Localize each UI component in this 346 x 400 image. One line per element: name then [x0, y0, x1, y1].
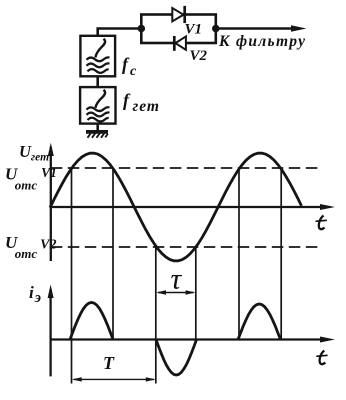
wire from source f_c top to left node	[98, 29, 142, 37]
dashed level U_отс V1	[51, 167, 322, 169]
svg-text:UотсV2: UотсV2	[5, 233, 57, 261]
node B (right junction dot)	[212, 25, 220, 33]
vertical guide line A	[71, 168, 73, 384]
svg-text:T: T	[103, 353, 115, 373]
node A (left junction dot)	[138, 25, 146, 33]
current pulse 1	[70, 303, 113, 340]
svg-text:fгет: fгет	[123, 90, 160, 115]
source generator f_c	[80, 36, 115, 77]
dashed level U_отс V2	[51, 246, 320, 248]
t axis (upper horizontal)	[51, 204, 335, 210]
svg-text:Uгет: Uгет	[19, 142, 49, 164]
wire loop of diode pair (rectangle)	[141, 15, 216, 44]
dimension T between lines A and C	[72, 377, 156, 381]
source generator f_гет	[80, 87, 115, 124]
output wire with arrow to filter	[216, 25, 307, 32]
ground	[86, 124, 108, 138]
sine curve U_гет(t)	[50, 153, 302, 261]
label t (lower)	[316, 351, 327, 365]
svg-text:iэ: iэ	[29, 283, 41, 306]
vertical guide line D	[195, 247, 197, 341]
vertical guide line E	[238, 168, 240, 341]
diode V1 (top, anode left)	[172, 6, 184, 23]
label t (upper)	[316, 216, 327, 230]
dimension τ between lines C and D	[156, 290, 195, 294]
t axis (lower horizontal)	[51, 337, 335, 343]
i axis (vertical)	[48, 285, 54, 377]
U axis (vertical)	[48, 143, 54, 261]
wire between generators	[96, 76, 99, 87]
svg-text:К фильтру: К фильтру	[218, 33, 306, 50]
vertical guide line F	[280, 168, 282, 341]
svg-text:V2: V2	[190, 48, 208, 64]
svg-text:V1: V1	[185, 22, 203, 38]
svg-text:fс: fс	[122, 54, 137, 79]
current pulse 2	[238, 304, 281, 340]
svg-text:UотсV1: UотсV1	[5, 165, 57, 193]
diode V2 (bottom, anode right)	[174, 36, 186, 51]
vertical guide line B	[112, 168, 114, 341]
current pulse negative	[156, 340, 197, 376]
svg-text:τ: τ	[171, 263, 183, 296]
vertical guide line C	[155, 247, 157, 384]
